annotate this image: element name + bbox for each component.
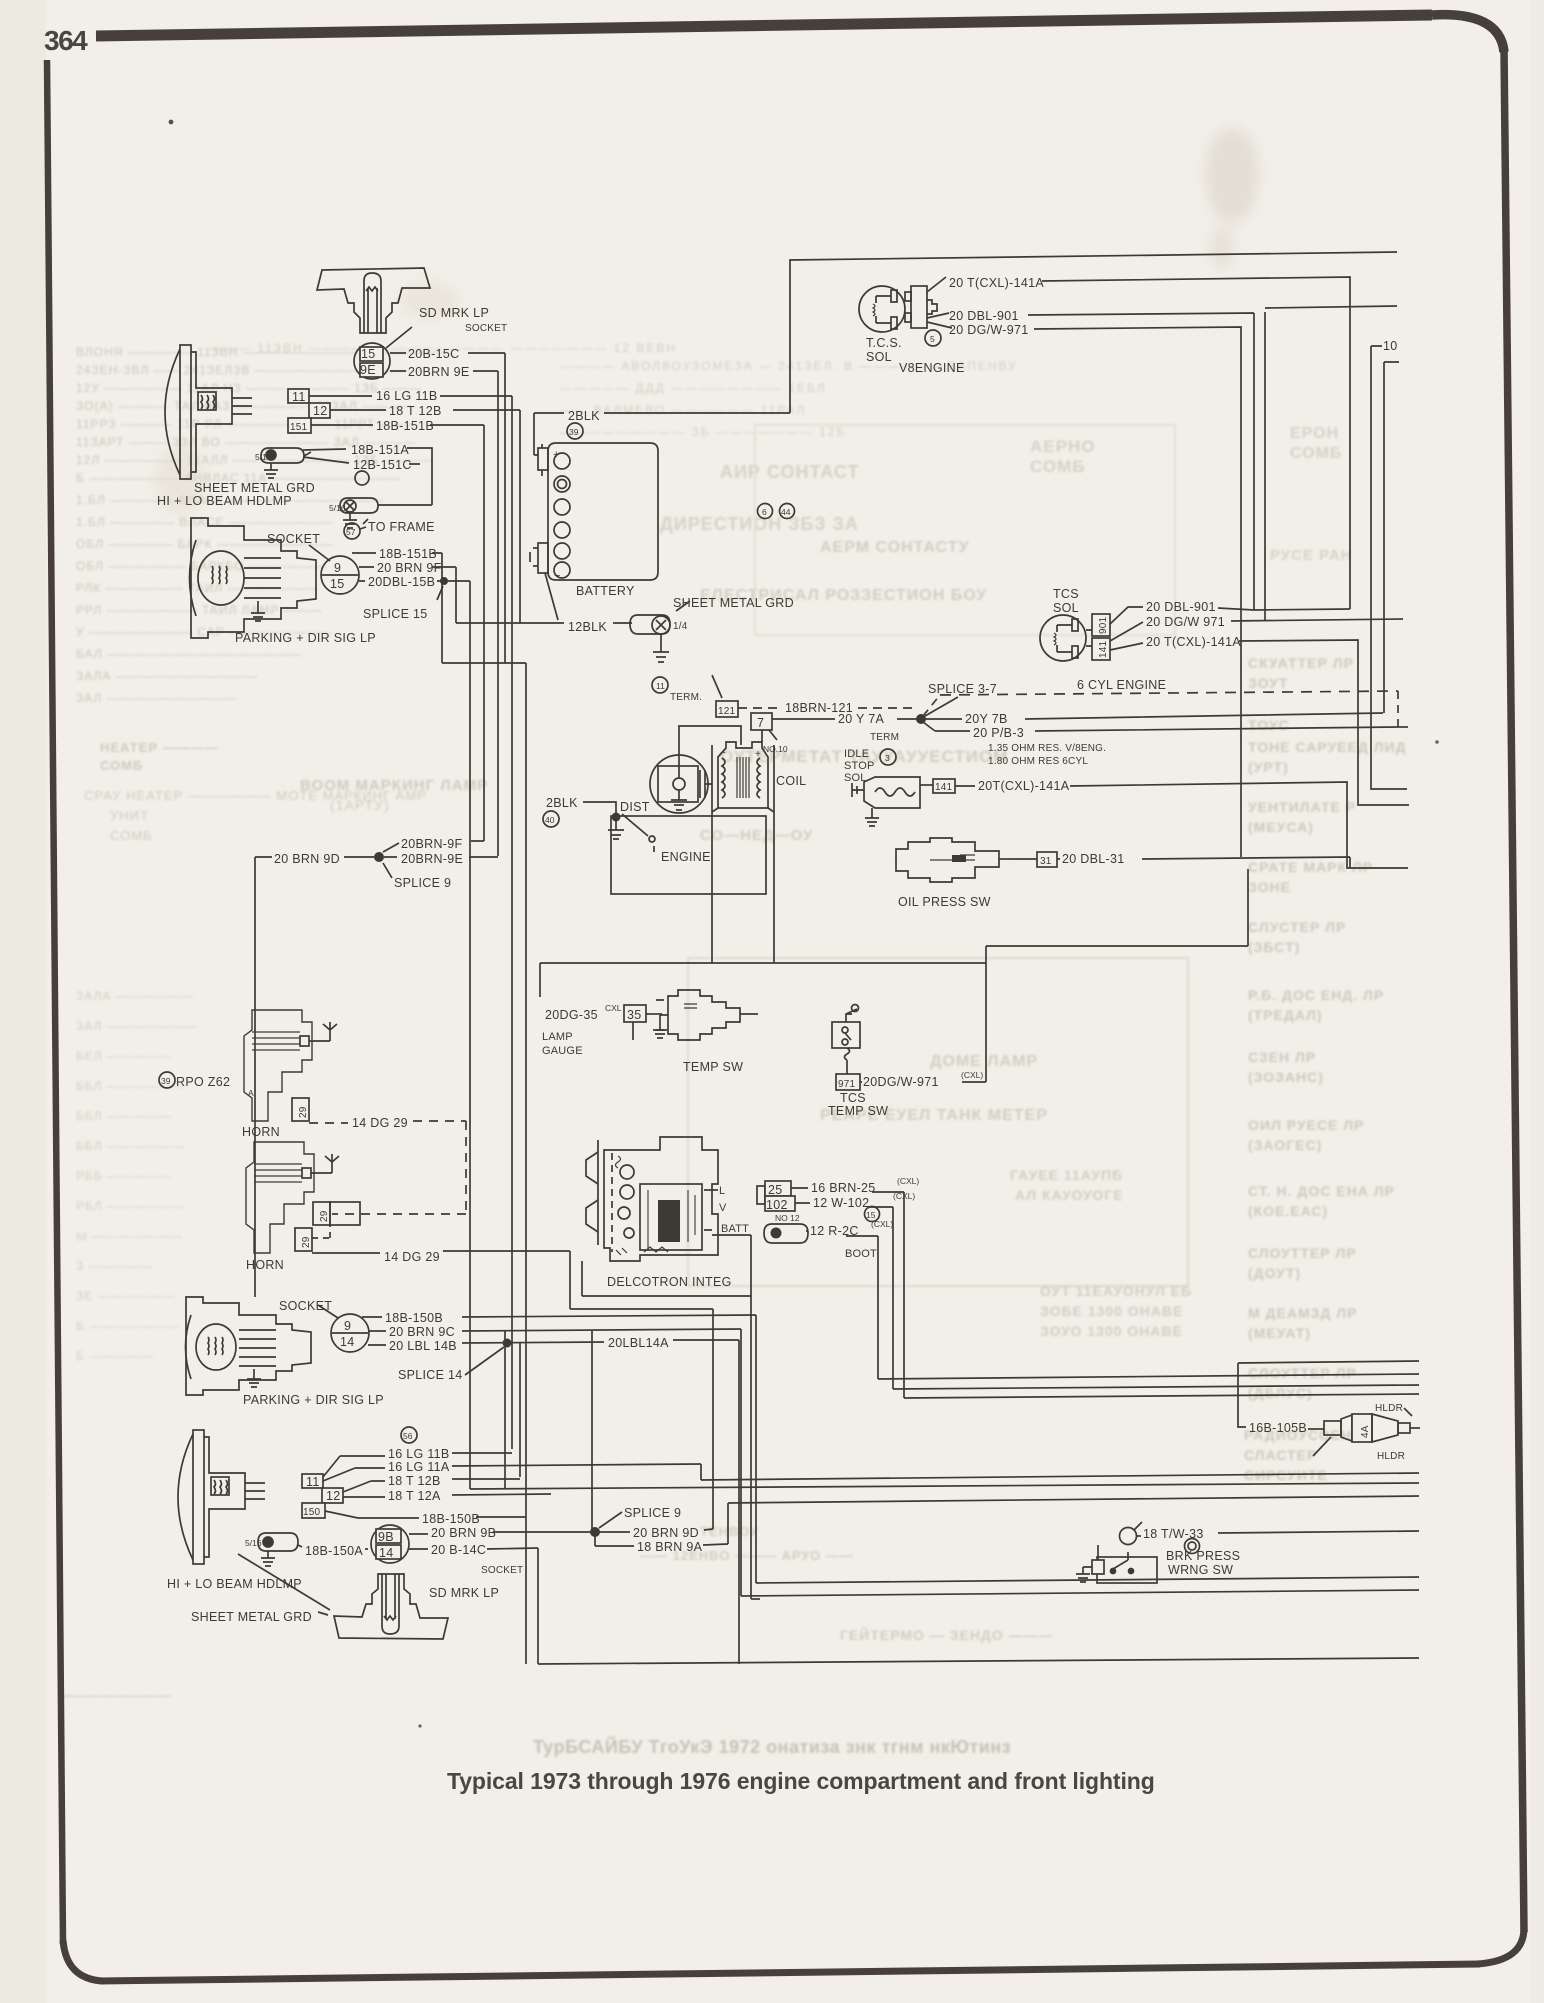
vertical 14C down to bottom rail — [537, 1548, 539, 1664]
wire 20BRN9B — [409, 1532, 591, 1534]
svg-text:151: 151 — [290, 422, 308, 433]
svg-text:(ДБЛУС): (ДБЛУС) — [1248, 1385, 1313, 1401]
headlamp HI+LO BEAM HDLMP (lower) — [178, 1430, 265, 1564]
parking lamp PARKING+DIR SIG LP (upper) — [190, 518, 317, 638]
svg-text:SOCKET: SOCKET — [279, 1299, 332, 1313]
svg-text:ЗОУО 1300 ОНАВЕ: ЗОУО 1300 ОНАВЕ — [1040, 1323, 1183, 1339]
svg-text:20LBL14A: 20LBL14A — [608, 1336, 669, 1350]
circled 39 RPO — [159, 1072, 175, 1088]
svg-text:СОМБ: СОМБ — [1290, 445, 1342, 462]
svg-text:57: 57 — [346, 527, 356, 537]
svg-text:SPLICE 14: SPLICE 14 — [398, 1368, 463, 1382]
svg-text:A: A — [248, 1088, 254, 1098]
svg-text:(УРТ): (УРТ) — [1248, 759, 1289, 775]
svg-text:7: 7 — [757, 716, 764, 730]
circled 5 — [925, 330, 941, 346]
svg-text:(CXL): (CXL) — [893, 1191, 915, 1201]
svg-text:15: 15 — [361, 347, 376, 361]
svg-text:АИР СОНТАСТ: АИР СОНТАСТ — [720, 462, 859, 482]
terminal box 121 — [712, 675, 738, 717]
decorative circle under 151C — [355, 471, 369, 485]
svg-text:150: 150 — [303, 1507, 321, 1518]
svg-text:20B-15C: 20B-15C — [408, 347, 459, 361]
svg-text:16B-105B: 16B-105B — [1249, 1421, 1307, 1435]
node: vertical 20B-15C long down — [504, 353, 506, 1489]
socket 15/9E (SD MRK LP top) — [354, 327, 412, 379]
wire 20BRN 9E — [390, 370, 498, 372]
vertical 150B right — [755, 1315, 757, 1583]
svg-text:20BRN-9F: 20BRN-9F — [401, 837, 463, 851]
svg-text:ЗОНЕ: ЗОНЕ — [1248, 879, 1291, 895]
wire rail 1583 — [756, 1577, 1419, 1583]
svg-text:ГАУЕЕ 11АУПБ: ГАУЕЕ 11АУПБ — [1010, 1167, 1123, 1183]
vertical 9C right — [740, 1329, 742, 1596]
svg-text:16 LG 11B: 16 LG 11B — [388, 1447, 450, 1461]
wire rail BATT 1599 — [751, 1598, 760, 1600]
svg-text:TEMP SW: TEMP SW — [683, 1060, 743, 1074]
svg-text:5/16: 5/16 — [245, 1538, 262, 1548]
svg-text:T.C.S.: T.C.S. — [866, 336, 902, 350]
svg-text:20 DG/W 971: 20 DG/W 971 — [1146, 615, 1225, 629]
svg-text:БАЛ ———————————————: БАЛ ——————————————— — [76, 647, 302, 661]
page frame left bar — [47, 60, 63, 1944]
wire 20B-15C — [390, 352, 505, 354]
svg-text:141: 141 — [1098, 640, 1109, 658]
leader sheet metal grd (lower) — [238, 1554, 330, 1615]
connector 16B-105B / 4A holder — [1308, 1408, 1420, 1456]
wire 20DBL-901 (6cyl) — [1218, 608, 1350, 610]
svg-text:10: 10 — [1383, 339, 1398, 353]
wire big loop up to right bundle — [790, 252, 1397, 413]
svg-text:————————: ———————— — [60, 1688, 172, 1703]
svg-text:РБЛ ——————: РБЛ —————— — [76, 1199, 185, 1213]
svg-text:11: 11 — [292, 390, 306, 404]
terminal box 141 (idle stop) — [933, 779, 955, 793]
svg-text:141: 141 — [935, 782, 953, 793]
svg-text:4A: 4A — [1360, 1425, 1371, 1438]
circled 6 — [758, 504, 773, 519]
svg-text:+: + — [553, 449, 560, 461]
svg-text:НЕАТЕР ————: НЕАТЕР ———— — [100, 740, 219, 755]
svg-text:WRNG SW: WRNG SW — [1168, 1563, 1233, 1577]
ground lug TO FRAME — [340, 498, 432, 528]
svg-text:ЗАЛА ——————: ЗАЛА —————— — [76, 989, 194, 1003]
wire 16 LG 11B — [309, 395, 512, 397]
wire 12B-151C — [303, 457, 420, 464]
svg-text:HORN: HORN — [246, 1258, 284, 1272]
page frame top-right corner — [1432, 15, 1504, 52]
svg-text:20DG-35: 20DG-35 — [545, 1008, 598, 1022]
terminal box 29 (horn2 upper) — [313, 1202, 360, 1225]
wire rail 1390 — [893, 1385, 1419, 1389]
wire 20T(CXL)-141A (V8 TCS) — [1042, 277, 1350, 609]
terminal boxes 901/141 (6cyl, rotated) — [1086, 607, 1143, 660]
svg-text:АЕРНО: АЕРНО — [1030, 437, 1095, 456]
wire 18 T/W-33 — [1218, 1531, 1419, 1533]
wire 20T(CXL)-141A long — [955, 782, 1408, 868]
svg-text:ТЕНВОУ: ТЕНВОУ — [700, 1524, 759, 1539]
svg-text:ENGINE: ENGINE — [661, 850, 711, 864]
terminal box 150 (lower) — [302, 1503, 325, 1518]
svg-text:(МЕУСА): (МЕУСА) — [1248, 819, 1314, 835]
svg-text:SHEET METAL GRD: SHEET METAL GRD — [194, 481, 315, 495]
verticals from labels down to lower-right rails — [903, 1192, 905, 1398]
svg-text:20DBL-15B: 20DBL-15B — [368, 575, 435, 589]
wire 2BLK to distributor ground — [583, 802, 616, 817]
svg-text:HI + LO BEAM HDLMP: HI + LO BEAM HDLMP — [167, 1577, 302, 1591]
svg-text:PARKING + DIR SIG LP: PARKING + DIR SIG LP — [243, 1393, 384, 1407]
vertical 20LBL14A down — [738, 1340, 740, 1664]
wire 20DBL-15B + splice 15 node — [359, 580, 470, 582]
svg-text:39: 39 — [161, 1076, 171, 1086]
svg-text:СОМБ: СОМБ — [110, 828, 153, 843]
svg-text:20 Y 7A: 20 Y 7A — [838, 712, 884, 726]
svg-text:102: 102 — [766, 1198, 788, 1212]
svg-text:9E: 9E — [360, 363, 376, 377]
circled 40 — [543, 811, 559, 827]
dashed wire 14 DG 29 — [309, 1121, 466, 1214]
terminal box 31 — [1014, 852, 1057, 867]
Delcotron integral alternator — [604, 1137, 718, 1261]
svg-text:20 T(CXL)-141A: 20 T(CXL)-141A — [1146, 635, 1241, 649]
svg-text:6 CYL ENGINE: 6 CYL ENGINE — [1077, 678, 1166, 692]
wire 18 T 12A — [343, 1494, 551, 1497]
svg-text:————— ДДД ———————— 1ЕБЛ: ————— ДДД ———————— 1ЕБЛ — [560, 381, 827, 395]
ignition coil — [712, 730, 774, 812]
svg-text:(CXL): (CXL) — [871, 1219, 893, 1229]
svg-text:9: 9 — [334, 561, 341, 575]
boot connector — [764, 1224, 808, 1243]
circled 10 — [1185, 1539, 1200, 1554]
svg-text:20 B-14C: 20 B-14C — [431, 1543, 486, 1557]
svg-text:20 BRN 9F: 20 BRN 9F — [377, 561, 442, 575]
svg-text:SD MRK LP: SD MRK LP — [429, 1586, 499, 1600]
svg-text:SD MRK LP: SD MRK LP — [419, 306, 489, 320]
wire rail 1596 — [741, 1590, 1419, 1596]
svg-text:12 R-2C: 12 R-2C — [810, 1224, 859, 1238]
wire 20BRN-9E leader — [384, 856, 498, 858]
wire lamp gauge feed — [540, 962, 986, 964]
svg-text:18 T 12A: 18 T 12A — [388, 1489, 441, 1503]
svg-text:12У —————— 11АЛ НЗ ———————— 1З: 12У —————— 11АЛ НЗ ———————— 1ЗБ ——— — [76, 381, 422, 395]
wire rail 1378 — [878, 1374, 1419, 1379]
svg-text:SOCKET: SOCKET — [267, 532, 320, 546]
svg-text:ББЛ —————: ББЛ ————— — [76, 1109, 172, 1123]
wire 16 LG 11A — [323, 1464, 701, 1481]
svg-text:BATTERY: BATTERY — [576, 584, 635, 598]
svg-text:SOL: SOL — [1053, 601, 1079, 615]
svg-text:11: 11 — [656, 681, 665, 691]
svg-text:ББЛ ——————: ББЛ —————— — [76, 1139, 185, 1153]
svg-text:18B-150A: 18B-150A — [305, 1544, 363, 1558]
terminal box 11 (lower) — [302, 1474, 323, 1489]
svg-text:СОМБ: СОМБ — [100, 758, 143, 773]
svg-text:ЗАЛ ———————: ЗАЛ ——————— — [76, 1019, 198, 1033]
terminal box 12 — [309, 403, 330, 418]
svg-text:Б —————: Б ————— — [76, 1349, 154, 1363]
svg-text:18 BRN 9A: 18 BRN 9A — [637, 1540, 703, 1554]
splice 9 upper cluster: wire 20 BRN 9D — [255, 856, 374, 858]
horn 2 — [246, 1142, 339, 1253]
svg-text:31: 31 — [1040, 856, 1052, 867]
wire 16 BRN-25 — [791, 1188, 904, 1192]
wire 16B-105B feed — [1238, 1361, 1419, 1427]
svg-text:HLDR: HLDR — [1375, 1403, 1403, 1414]
TCS solenoid 6CYL — [1040, 615, 1086, 661]
brake pressure warning switch — [1076, 1522, 1157, 1583]
svg-text:РББ —————: РББ ————— — [76, 1169, 172, 1183]
TCS V8 connector — [905, 277, 952, 328]
svg-text:TO FRAME: TO FRAME — [368, 520, 435, 534]
svg-text:20 DBL-31: 20 DBL-31 — [1062, 852, 1124, 866]
page frame bottom-left corner — [63, 1940, 103, 1981]
svg-text:29: 29 — [319, 1210, 330, 1222]
vertical 15B down — [469, 581, 471, 1489]
svg-text:9: 9 — [344, 1319, 351, 1333]
svg-text:BRK PRESS: BRK PRESS — [1166, 1549, 1240, 1563]
svg-text:18B-151A: 18B-151A — [351, 443, 409, 457]
svg-text:ТОНЕ САРУЕЕД ЛИД: ТОНЕ САРУЕЕД ЛИД — [1248, 739, 1407, 755]
vertical 12B down — [519, 410, 521, 1477]
svg-text:121: 121 — [718, 706, 736, 717]
dashed wire 18BRN-121 — [738, 707, 918, 709]
svg-text:20 DG/W-971: 20 DG/W-971 — [949, 323, 1029, 337]
svg-text:СОМБ: СОМБ — [1030, 457, 1085, 476]
svg-text:SPLICE 9: SPLICE 9 — [624, 1506, 681, 1520]
svg-text:Typical 1973 through 1976 engi: Typical 1973 through 1976 engine compart… — [447, 1768, 1155, 1794]
page frame top bar — [96, 15, 1432, 36]
svg-text:СЗЕН ЛР: СЗЕН ЛР — [1248, 1049, 1316, 1065]
bracket wire second — [1384, 362, 1399, 713]
svg-text:Р.Б. ДОС ЕНД. ЛР: Р.Б. ДОС ЕНД. ЛР — [1248, 987, 1384, 1003]
svg-text:СЛУСТЕР ЛР: СЛУСТЕР ЛР — [1248, 919, 1346, 935]
svg-text:(1АРТУ): (1АРТУ) — [330, 797, 390, 813]
points contact — [622, 814, 648, 836]
svg-text:TCS: TCS — [840, 1091, 866, 1105]
svg-text:БЕЛ —————: БЕЛ ————— — [76, 1049, 172, 1063]
TCS solenoid V8 — [859, 286, 905, 332]
wire 20 T(CXL)-141A (6cyl) — [1110, 640, 1409, 805]
svg-text:40: 40 — [545, 815, 555, 825]
wire jog headlamp bus — [442, 663, 526, 1664]
svg-text:Б ———————: Б ——————— — [76, 1319, 180, 1333]
svg-text:GAUGE: GAUGE — [542, 1045, 583, 1057]
svg-text:ЗАЛ ——————————: ЗАЛ —————————— — [76, 691, 237, 705]
temp switch (gauge sender) — [653, 990, 758, 1040]
wire 18B-151A — [303, 448, 432, 505]
svg-text:(ЗАОГЕС): (ЗАОГЕС) — [1248, 1137, 1322, 1153]
wire 2BLK battery feed — [534, 413, 790, 455]
ground lug sheet metal (headlamp 1) — [261, 448, 311, 478]
svg-text:SHEET METAL GRD: SHEET METAL GRD — [673, 596, 794, 610]
svg-text:12B-151C: 12B-151C — [353, 458, 412, 472]
vertical 9D — [712, 1309, 714, 1529]
circled 39 — [567, 423, 583, 439]
wire 18B-150B (lower label) — [325, 1511, 526, 1518]
svg-text:ГЕЙТЕРМО — ЗЕНДО ———: ГЕЙТЕРМО — ЗЕНДО ——— — [840, 1626, 1054, 1643]
svg-text:(ТРЕДАЛ): (ТРЕДАЛ) — [1248, 1007, 1323, 1023]
svg-text:35: 35 — [627, 1008, 642, 1022]
svg-text:(CXL): (CXL) — [961, 1070, 983, 1080]
svg-text:11РРЗ ———— 11Р РЛ ———————— 11Р: 11РРЗ ———— 11Р РЛ ———————— 11РРТ ——— — [76, 417, 418, 431]
wire 18 BRN 9A — [595, 1536, 728, 1546]
svg-text:1/4: 1/4 — [673, 621, 688, 632]
svg-text:TERM.: TERM. — [670, 692, 702, 703]
svg-text:14: 14 — [379, 1546, 394, 1560]
stub right from 971 bus top — [1265, 306, 1397, 308]
svg-text:Ы ———————: Ы ——————— — [76, 1229, 183, 1243]
svg-text:З —————: З ————— — [76, 1259, 154, 1273]
terminal box 151 — [288, 418, 311, 433]
svg-text:РЛК —————— ТАИЛ ———————: РЛК —————— ТАИЛ ——————— — [76, 581, 319, 595]
svg-text:25: 25 — [768, 1183, 783, 1197]
wire 14 DG 29 solid — [312, 1251, 570, 1309]
svg-text:20 BRN 9D: 20 BRN 9D — [274, 852, 340, 866]
wire corner box right of oil press — [986, 869, 1248, 946]
wire 20 P/B-3 — [923, 722, 1398, 731]
oil pressure switch — [896, 838, 1014, 882]
wire 18B-151B — [311, 424, 484, 426]
svg-text:BOOT: BOOT — [845, 1248, 877, 1260]
wire 10 bracket — [1371, 346, 1407, 789]
svg-text:(ЗБСТ): (ЗБСТ) — [1248, 939, 1300, 955]
svg-text:20BRN 9E: 20BRN 9E — [408, 365, 469, 379]
wire oilpress/gauge loop right — [985, 946, 987, 1082]
svg-text:СО—НЕД—ОУ: СО—НЕД—ОУ — [700, 827, 813, 844]
svg-text:DELCOTRON INTEG: DELCOTRON INTEG — [607, 1275, 732, 1289]
wire 20BRN9E vertical to splice9 area — [497, 371, 499, 856]
svg-text:ЕРОН: ЕРОН — [1290, 425, 1339, 442]
vertical BATT bus down — [750, 1235, 752, 1599]
wire L/V terminals — [714, 1189, 718, 1191]
terminal box 12 (lower) — [322, 1488, 343, 1503]
svg-text:V8ENGINE: V8ENGINE — [899, 361, 965, 375]
svg-text:−: − — [554, 570, 561, 582]
lamp SD MRK LP (top) — [317, 268, 430, 333]
svg-text:(КОЕ.ЕАС): (КОЕ.ЕАС) — [1248, 1203, 1328, 1219]
svg-text:(МЕУАТ): (МЕУАТ) — [1248, 1325, 1311, 1341]
svg-text:1.БЛ ————— ВЛАСЕ ————————: 1.БЛ ————— ВЛАСЕ ———————— — [76, 515, 333, 529]
stains — [1206, 127, 1258, 223]
wire 9C drop to splice 9 — [591, 1331, 593, 1532]
svg-text:20 BRN 9C: 20 BRN 9C — [389, 1325, 455, 1339]
svg-text:(ДОУТ): (ДОУТ) — [1248, 1265, 1301, 1281]
horn 1 — [244, 1010, 337, 1121]
svg-text:PARKING + DIR SIG LP: PARKING + DIR SIG LP — [235, 631, 376, 645]
svg-text:АЕРМ СОНТАСТУ: АЕРМ СОНТАСТУ — [820, 539, 969, 556]
svg-text:УЕНТИЛАТЕ Р: УЕНТИЛАТЕ Р — [1248, 799, 1356, 815]
svg-text:SHEET METAL GRD: SHEET METAL GRD — [191, 1610, 312, 1624]
svg-text:20BRN-9E: 20BRN-9E — [401, 852, 463, 866]
svg-text:SOCKET: SOCKET — [481, 1565, 523, 1576]
page frame bottom bar — [100, 1964, 1480, 1981]
svg-text:РРЛ ——————— ТАИЛ ЛАМР ———: РРЛ ——————— ТАИЛ ЛАМР ——— — [76, 603, 323, 617]
wire 20 BRN 9D — [598, 1529, 713, 1532]
svg-text:11: 11 — [306, 1475, 320, 1489]
svg-text:ОИЛ РУЕСЕ ЛР: ОИЛ РУЕСЕ ЛР — [1248, 1117, 1364, 1133]
vertical 151B parking down — [441, 553, 443, 663]
lamp SD MRK LP (bottom) — [334, 1574, 448, 1639]
battery — [530, 443, 658, 582]
circled 11 TERM — [652, 677, 668, 693]
wire 18 T 12B — [330, 409, 520, 411]
svg-text:ЗАЛА ———————————: ЗАЛА ——————————— — [76, 669, 259, 683]
svg-text:20 P/B-3: 20 P/B-3 — [973, 726, 1024, 740]
svg-text:−: − — [720, 748, 726, 759]
vertical 9F down — [455, 567, 457, 623]
leader splice 9 upper — [383, 863, 392, 878]
svg-text:18 T 12B: 18 T 12B — [389, 404, 442, 418]
svg-text:SOCKET: SOCKET — [465, 323, 507, 334]
svg-text:HORN: HORN — [242, 1125, 280, 1139]
circled 3 — [880, 749, 896, 765]
svg-text:12: 12 — [326, 1489, 341, 1503]
svg-text:HLDR: HLDR — [1377, 1451, 1405, 1462]
ground lug (headlamp lower) — [258, 1533, 302, 1566]
svg-text:20 LBL 14B: 20 LBL 14B — [389, 1339, 457, 1353]
terminal box 11 — [288, 389, 309, 404]
svg-text:12BLK: 12BLK — [568, 620, 607, 634]
splice 9 node — [590, 1527, 600, 1537]
wire 16 LG 11B (lower) — [323, 1453, 512, 1477]
svg-text:RPO Z62: RPO Z62 — [176, 1075, 230, 1089]
splice 3-7 node — [916, 714, 926, 724]
svg-text:3: 3 — [885, 753, 890, 763]
parking lamp PARKING+DIR SIG LP (lower) — [186, 1297, 312, 1395]
wire 12 R-2C — [806, 1231, 878, 1236]
svg-text:29: 29 — [298, 1106, 309, 1118]
svg-text:5/16: 5/16 — [255, 452, 272, 462]
svg-text:44: 44 — [781, 507, 791, 517]
vertical 11B down — [511, 396, 513, 1449]
svg-text:9B: 9B — [378, 1530, 394, 1544]
svg-text:HI + LO BEAM HDLMP: HI + LO BEAM HDLMP — [157, 494, 292, 508]
svg-text:16 LG 11B: 16 LG 11B — [376, 389, 438, 403]
svg-text:20 BRN 9B: 20 BRN 9B — [431, 1526, 496, 1540]
wire delcotron bottom bus — [582, 1261, 751, 1296]
wire 20 BRN 9F — [359, 566, 456, 568]
connector boxes 25/102 — [757, 1181, 795, 1212]
wire long 18BRN9A right — [728, 1496, 1419, 1503]
circled 15 — [865, 1207, 880, 1222]
wire 20DG/W-971 (tcs temp) — [860, 1081, 986, 1083]
svg-text:2BLK: 2BLK — [546, 796, 578, 810]
svg-text:LAMP: LAMP — [542, 1031, 573, 1043]
svg-text:15: 15 — [330, 577, 345, 591]
svg-text:РУСЕ РАН: РУСЕ РАН — [1270, 547, 1353, 564]
wire rail bottom 1664 — [538, 1658, 1419, 1664]
circled 44 — [780, 504, 795, 519]
socket circle 9B/14 (SD MRK lower) — [371, 1525, 409, 1563]
svg-text:16 LG 11A: 16 LG 11A — [388, 1460, 450, 1474]
headlamp HI+LO BEAM HDLMP (upper) — [165, 345, 252, 479]
terminal box 29 (horn1) — [248, 1088, 309, 1121]
svg-text:20 T(CXL)-141A: 20 T(CXL)-141A — [949, 276, 1044, 290]
wire coil mounts down to lamp gauge line — [712, 812, 774, 963]
svg-text:20 BRN 9D: 20 BRN 9D — [633, 1526, 699, 1540]
svg-text:L: L — [719, 1185, 725, 1197]
wire 12 W-102 — [795, 1203, 893, 1207]
svg-text:14 DG 29: 14 DG 29 — [384, 1250, 440, 1264]
svg-text:20 DBL-901: 20 DBL-901 — [949, 309, 1019, 323]
splice 9 upper node — [374, 852, 384, 862]
page frame bottom-right corner — [1477, 1928, 1524, 1964]
svg-text:СЛОУТТЕР ЛР: СЛОУТТЕР ЛР — [1248, 1245, 1357, 1261]
svg-text:СЛАСТЕР: СЛАСТЕР — [1244, 1447, 1317, 1463]
svg-text:СЛОУТТЕР ЛР: СЛОУТТЕР ЛР — [1248, 1365, 1357, 1381]
wire 20BRN-9D horizontal — [570, 1308, 713, 1310]
svg-text:2BLK: 2BLK — [568, 409, 600, 423]
